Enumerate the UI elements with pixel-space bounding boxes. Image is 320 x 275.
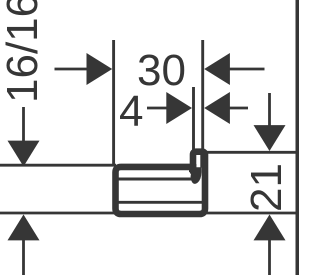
right page border strip xyxy=(296,0,300,275)
16/16 down arrow xyxy=(8,141,40,167)
dim 4 left-pointing arrow xyxy=(204,92,230,124)
profile inner bottom wall line xyxy=(119,201,203,204)
right up arrow tail xyxy=(268,240,271,275)
dim 4 leader from text xyxy=(147,107,168,110)
right up arrow (dim 21) xyxy=(254,215,286,241)
extension line E2 (right outer face) xyxy=(201,40,204,151)
wall line right (hook top level) xyxy=(204,151,296,154)
label 16/16 (rotated) xyxy=(1,0,45,103)
dim 30 left arrow xyxy=(87,53,113,85)
right down arrow xyxy=(254,125,286,151)
left up arrow tail xyxy=(22,240,25,275)
extension line E1 (left outer face) xyxy=(112,40,115,166)
dim 4 right-pointing arrow xyxy=(166,92,192,124)
dim 30 left tail xyxy=(55,68,90,71)
wall line left (top surface) xyxy=(0,164,116,167)
label 4 xyxy=(119,90,143,134)
profile outer shell (body + hook) xyxy=(116,152,206,214)
bottom wall line xyxy=(0,212,296,215)
right down arrow tail xyxy=(268,93,271,127)
dim 30 right arrow xyxy=(204,53,230,85)
profile inner top wall line xyxy=(119,178,193,181)
label 30 xyxy=(137,49,186,93)
hook junction fill xyxy=(189,164,196,174)
hook lip bend blob xyxy=(191,167,202,184)
hook slot right wall thickening xyxy=(200,152,202,168)
16/16 dimension tail (vertical, above arrow) xyxy=(22,107,25,142)
label 21 (rotated) xyxy=(245,163,289,212)
extension line E3 (slot left face) xyxy=(192,87,195,151)
left up arrow xyxy=(8,215,40,241)
dim 30 right tail xyxy=(229,68,265,71)
dim 4 right tail xyxy=(229,107,248,110)
